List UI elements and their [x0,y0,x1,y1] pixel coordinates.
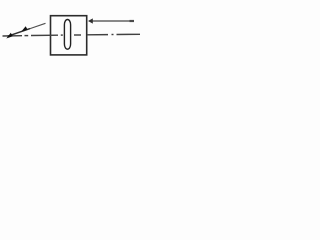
wire axis dash 5 [117,33,141,35]
wire axis dash 3 [74,34,81,36]
arrowhead A2 (mid left ray) [21,26,27,31]
ray R-right (incoming horizontal ray) [93,20,135,22]
background [0,0,147,66]
arrowhead A1 (tip of left ray) [6,33,13,39]
wire axis dash 4 [87,34,108,36]
wire axis dot 3 [112,34,114,36]
wire right-end tick [130,20,135,22]
wire axis dot 2 [61,34,63,36]
ray R-left lower segment (exiting slanted ray) [8,29,31,37]
wire axis dash 2 [31,34,58,36]
lens L1 (ellipse inside box) [64,20,70,50]
wire axis dash 1 [3,35,23,37]
ray R-left upper segment [30,23,46,28]
wire axis dot 1 [25,35,29,37]
optical axis dash-dot line [3,34,141,36]
box U1 (black box enclosure) [51,16,87,55]
arrowhead A3 (right ray pointing left) [88,18,93,23]
